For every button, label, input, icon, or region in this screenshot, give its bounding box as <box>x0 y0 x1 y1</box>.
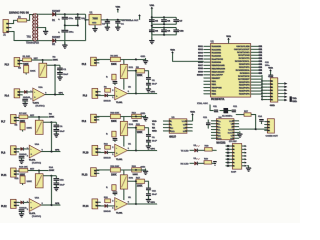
ground C3 <box>105 24 110 30</box>
capacitor C1b <box>57 72 69 77</box>
capacitor right B1 <box>146 188 151 194</box>
wire branch to caps <box>55 65 60 67</box>
label +5V output <box>122 15 141 23</box>
wire regulator output rail <box>101 19 131 21</box>
wire op-amp output <box>45 94 64 96</box>
wire R16 to node <box>120 169 143 171</box>
wire bus to J2 <box>262 81 267 100</box>
connector PL3 <box>5 58 23 67</box>
resistor R9 vertical <box>15 122 26 131</box>
label op-amp type <box>33 103 45 108</box>
fuse F1 <box>18 17 27 22</box>
transformer T1 <box>26 13 39 45</box>
wire op-amp B output <box>127 149 157 151</box>
ground caps A <box>57 74 62 80</box>
junction trimmer out <box>50 175 52 177</box>
wire op-amp B output <box>127 92 157 94</box>
ground LED2 <box>213 161 216 166</box>
wire fuse to transformer primary <box>27 15 32 21</box>
wire cap bank top bus <box>151 16 176 18</box>
wire diode to op-amp B <box>108 151 115 153</box>
wire PL13 to R16 <box>96 169 110 171</box>
power flag VDD U3 <box>190 112 195 121</box>
label output net B <box>151 202 156 204</box>
regulator U1 7805 <box>89 12 101 28</box>
capacitor right B2 <box>146 137 157 145</box>
wire cap bank bottom bus <box>152 34 176 36</box>
capacitor C11 22p <box>213 106 218 112</box>
label MCU subtitle <box>197 102 208 105</box>
label output net B <box>151 91 156 93</box>
connector PL9 <box>82 114 99 123</box>
wire node to trimmer <box>42 60 44 63</box>
capacitor op-amp bypass <box>19 209 25 213</box>
ground C4 <box>115 24 120 30</box>
label U3 nets <box>152 121 157 133</box>
connector PL4 <box>5 89 23 98</box>
power flag VDD +5V <box>115 7 120 13</box>
junction output feedback B <box>135 203 137 205</box>
wire diode to op-amp B <box>108 205 115 207</box>
junction node <box>42 59 44 61</box>
capacitor C3a <box>54 125 64 129</box>
capacitor C3b <box>54 129 66 134</box>
wire branch to caps <box>51 176 56 178</box>
crystal X1 <box>220 108 234 118</box>
resistor R4 <box>110 54 120 66</box>
resistor R17 <box>236 111 256 129</box>
resistor R16 <box>110 166 120 177</box>
diode D12 B <box>104 94 112 103</box>
wire secondary center tap to ground <box>38 27 45 30</box>
wire R4 to node <box>120 58 143 60</box>
trimmer RV3 <box>27 120 44 134</box>
wire node to trimmer <box>38 171 40 174</box>
label set point <box>30 169 35 171</box>
junction C1 tap <box>64 13 66 15</box>
capacitor C10 100n <box>173 28 184 35</box>
ground regulator <box>92 26 97 32</box>
capacitor right B2 <box>146 191 157 199</box>
diode D15 1N4148 <box>19 201 27 210</box>
wire secondary bottom to D2 <box>38 40 52 42</box>
junction VDD node <box>117 19 119 21</box>
wire diode to op-amp <box>24 148 29 150</box>
capacitor C14 <box>258 115 264 124</box>
resistor R10 <box>110 112 120 123</box>
ground op-amp bypass <box>19 211 24 217</box>
diode D1 1N4007 <box>52 10 61 22</box>
op-amp TL071 <box>27 143 43 158</box>
wire D1 output to join <box>56 13 86 15</box>
capacitor C1a <box>57 68 67 72</box>
label op-amp B type <box>116 159 123 161</box>
capacitor C2b 100uF <box>58 25 74 44</box>
capacitor small B <box>113 138 118 142</box>
wire PL8 to diode <box>16 148 21 150</box>
trimmer RV1 <box>30 63 47 77</box>
wire trimmer out right <box>43 121 51 123</box>
junction output feedback <box>50 151 52 153</box>
wire op-amp output <box>41 204 60 206</box>
ground caps A <box>54 185 59 191</box>
resistor R17 100K <box>136 177 145 187</box>
junction C2 tap <box>77 13 79 15</box>
wire R5 right down <box>144 71 148 77</box>
label block top right <box>49 114 55 119</box>
diode D11 1N4148 <box>23 90 31 99</box>
connector PL11 <box>1 168 19 177</box>
wire diode to op-amp <box>28 91 33 93</box>
junction output feedback <box>50 204 52 206</box>
connector JP1 ISP <box>226 141 247 174</box>
label output net <box>55 203 60 205</box>
connector PL14 <box>83 199 101 209</box>
wire diode to op-amp <box>24 201 29 203</box>
connector PL7 <box>1 115 19 124</box>
wire trimmer bottom B <box>123 189 125 200</box>
wire feedback B <box>135 180 137 204</box>
label op-amp B type <box>116 102 123 104</box>
label LED2 net <box>180 163 194 165</box>
ground cap bank <box>149 38 154 44</box>
junction output feedback B <box>135 149 137 151</box>
connector J1 mains input <box>3 20 11 37</box>
wire trimmer bottom B <box>123 79 125 90</box>
connector PL13 <box>82 168 99 177</box>
wire node to trimmer B <box>123 116 125 121</box>
capacitor small B <box>113 81 118 85</box>
capacitor op-amp bypass <box>22 99 28 103</box>
wire op-amp B output <box>127 203 157 205</box>
wire trimmer bottom B <box>123 136 125 147</box>
wire R13 to node <box>28 170 49 172</box>
resistor R18 top extra <box>132 166 142 176</box>
op-amp TL071 <box>27 196 43 211</box>
op-amp TL061 B <box>112 143 131 157</box>
wire right column feedback <box>54 65 56 94</box>
junction trimmer out <box>50 121 52 123</box>
wire PL9 to R10 <box>96 115 110 117</box>
junction trimmer out <box>54 64 56 66</box>
wire OSC1 <box>210 105 214 111</box>
junction node <box>38 170 40 172</box>
resistor R19 330 <box>198 158 215 164</box>
label nets right edge <box>290 96 298 103</box>
resistor R12 top extra <box>132 112 142 122</box>
ground center tap <box>43 29 48 35</box>
capacitor op-amp bypass <box>19 156 25 160</box>
wire PL14 right <box>98 205 105 207</box>
resistor R5 100K <box>136 67 145 77</box>
resistor small vertical B <box>106 131 116 137</box>
wire trimmer out right <box>47 64 55 66</box>
connector PL8 <box>1 146 19 155</box>
op-amp TL061 B <box>112 197 131 210</box>
wire cap cluster bus <box>64 24 79 26</box>
ground right B <box>146 197 151 203</box>
ground filter cluster <box>62 42 67 48</box>
wire diode to op-amp B <box>108 94 115 96</box>
diode D16 B <box>104 204 112 213</box>
wire cap bank mid bus <box>151 23 176 28</box>
capacitor C4 10uF <box>115 21 124 27</box>
connector PL10 <box>83 145 101 155</box>
label set point <box>34 58 39 60</box>
capacitor top B <box>143 115 146 118</box>
power flag VDD MCU <box>170 50 203 62</box>
capacitor top B <box>143 169 146 172</box>
wire trimmer to R5 <box>127 70 135 72</box>
wire MCU to header bus <box>258 45 263 100</box>
label op-amp type <box>29 213 41 218</box>
resistor small vertical B <box>106 185 116 191</box>
wire feedback B <box>135 70 137 94</box>
capacitor right B2 <box>146 80 157 88</box>
resistor R13 10K <box>19 167 28 177</box>
capacitor C5b <box>54 183 66 188</box>
trimmer RV6 <box>120 175 133 189</box>
ground right B <box>146 86 151 92</box>
resistor R11 100K <box>136 124 145 134</box>
ground top B <box>141 56 149 64</box>
wire trimmer to R11 <box>127 127 135 129</box>
wire D2 output to join <box>56 40 86 42</box>
trimmer RV2 <box>120 64 133 78</box>
junction node B <box>135 58 137 60</box>
connector PL6 <box>83 88 101 98</box>
resistor input B <box>104 197 110 202</box>
wire node to trimmer B <box>123 59 125 64</box>
wire op-amp output <box>41 151 60 153</box>
power flag VDD MCU top <box>226 36 231 43</box>
LED D4 <box>194 158 200 165</box>
capacitor C2 100n <box>75 14 87 25</box>
wire top extra <box>141 115 146 117</box>
junction C3 node <box>106 19 108 21</box>
wire feedback B <box>135 127 137 151</box>
resistor R18 330 <box>198 145 217 151</box>
power flag VDD J2 <box>268 68 273 75</box>
ground op-amp bypass <box>19 158 24 164</box>
capacitor C15 J2 <box>265 62 273 77</box>
label LED1 net <box>181 150 194 152</box>
label block top right <box>53 57 59 62</box>
wire R10 to node <box>120 115 143 117</box>
trimmer RV5 <box>27 174 44 188</box>
ground right B <box>146 143 151 149</box>
connector PL5 <box>82 57 99 66</box>
wire top extra <box>141 169 146 171</box>
resistor input B <box>104 87 110 93</box>
resistor input B <box>104 144 110 149</box>
label output net <box>55 150 60 152</box>
resistor R15 vertical <box>15 176 26 185</box>
capacitor small B <box>113 192 118 196</box>
wire PL3 to R1 <box>20 60 23 62</box>
label output net <box>59 93 64 95</box>
junction node B <box>135 169 137 171</box>
capacitor C12 22p <box>232 106 238 112</box>
resistor R7 10K <box>19 113 28 123</box>
junction output feedback <box>54 94 56 96</box>
connector PL12 <box>1 199 19 208</box>
wire node to trimmer B <box>123 170 125 175</box>
connector J3 COMM <box>264 119 278 138</box>
ground top B <box>141 113 149 121</box>
wire PL7 to R3 <box>16 117 19 119</box>
connector J2 header <box>267 76 287 107</box>
trimmer RV4 <box>120 121 133 135</box>
ground op-amp bypass <box>23 101 28 107</box>
wire PL4 to diode <box>20 91 25 93</box>
wire PL6 right <box>98 94 105 96</box>
wire J1 pin3 to transformer primary bottom <box>11 32 31 41</box>
capacitor right B1 <box>146 77 151 83</box>
capacitor C13 <box>203 117 210 129</box>
wire branch to caps <box>51 122 56 124</box>
diode D13 1N4148 <box>19 147 27 156</box>
label op-amp type <box>29 160 41 165</box>
capacitor right B1 <box>146 134 151 140</box>
IC U4 MAX232 <box>211 116 239 145</box>
diode D2 1N4007 <box>52 36 61 46</box>
capacitor C6 100n <box>161 17 171 24</box>
wire PL10 right <box>98 151 105 153</box>
label set point <box>30 115 35 117</box>
capacitor C9 100n <box>161 28 171 35</box>
capacitor C5a <box>54 178 65 182</box>
resistor R3 vertical <box>18 65 29 74</box>
wire PL12 to diode <box>16 201 21 203</box>
wire R11 right down <box>144 128 148 134</box>
junction node <box>38 116 40 118</box>
wire secondary top to D1 <box>38 13 52 15</box>
label block top right <box>49 166 55 172</box>
capacitor top B <box>143 58 146 61</box>
microcontroller U2 PIC16F877A <box>197 40 258 101</box>
wire J1 pin1 to fuse <box>11 20 17 23</box>
capacitor C8 100n <box>149 28 159 35</box>
ground U4 <box>237 131 242 137</box>
IC U3 opto <box>163 117 193 139</box>
capacitor C7 100n <box>173 17 183 24</box>
wire trimmer out right <box>43 175 51 177</box>
wire trimmer to R17 <box>127 180 135 182</box>
wire PL11 to R5 <box>16 170 19 172</box>
label 230V AC mains input <box>9 11 29 15</box>
op-amp TL061 B <box>112 87 131 100</box>
wire R7 to node <box>28 116 49 118</box>
capacitor C3 100n <box>102 21 110 27</box>
junction DC join <box>85 19 87 21</box>
wire cap bank left rail <box>151 11 153 40</box>
ground JP1 <box>246 165 251 171</box>
wire PL5 to R4 <box>96 58 110 60</box>
wire U4 to J3 <box>239 128 267 130</box>
wire node to trimmer <box>38 117 40 120</box>
capacitor C5 100n <box>149 17 159 24</box>
wire R17 right down <box>144 181 148 187</box>
wire DC rail to regulator input <box>86 19 90 21</box>
wire R1 to node <box>31 59 52 61</box>
resistor R1 10K <box>23 56 32 66</box>
ground top B <box>141 167 149 175</box>
junction node B <box>135 115 137 117</box>
capacitor C1 470uF <box>58 14 74 25</box>
ground caps A <box>54 131 59 137</box>
wire right column feedback <box>50 176 52 205</box>
junction output feedback B <box>135 92 137 94</box>
LED D3 <box>194 145 200 152</box>
power flag VDD cap bank <box>149 5 154 11</box>
wire DC join vertical <box>85 14 87 40</box>
op-amp TL071 <box>30 86 46 101</box>
label output net B <box>151 147 156 150</box>
diode D14 B <box>104 151 112 160</box>
resistor small vertical B <box>106 74 116 80</box>
label op-amp B type <box>116 213 123 215</box>
wire right column feedback <box>50 122 52 151</box>
